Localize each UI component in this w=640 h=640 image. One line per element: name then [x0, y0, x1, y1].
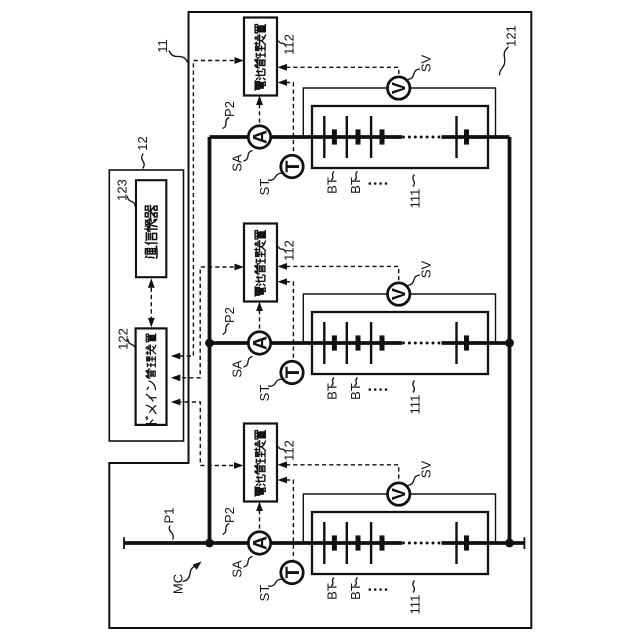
svg-text:SV: SV	[419, 261, 434, 279]
svg-text:11: 11	[155, 39, 170, 53]
svg-text:A: A	[249, 536, 271, 550]
svg-text:V: V	[389, 488, 409, 500]
svg-text:A: A	[249, 130, 271, 144]
svg-text:ST: ST	[257, 585, 272, 602]
svg-text:P2: P2	[222, 507, 237, 523]
svg-text:12: 12	[135, 136, 150, 150]
svg-text:121: 121	[504, 25, 519, 47]
svg-text:P2: P2	[222, 307, 237, 323]
svg-text:P2: P2	[222, 101, 237, 117]
svg-text:T: T	[282, 160, 304, 172]
svg-text:MC: MC	[171, 574, 186, 594]
svg-text:T: T	[282, 566, 304, 578]
svg-text:111: 111	[407, 189, 422, 209]
svg-text:ST: ST	[257, 179, 272, 196]
svg-text:122: 122	[116, 328, 131, 350]
svg-text:SV: SV	[419, 55, 434, 73]
svg-text:SA: SA	[230, 560, 245, 578]
svg-text:P1: P1	[161, 508, 176, 524]
svg-text:112: 112	[282, 440, 297, 461]
svg-text:111: 111	[407, 595, 422, 615]
svg-text:SV: SV	[419, 461, 434, 479]
svg-text:112: 112	[282, 34, 297, 55]
svg-text:112: 112	[282, 240, 297, 261]
svg-text:ST: ST	[257, 385, 272, 402]
svg-text:V: V	[389, 288, 409, 300]
svg-text:T: T	[282, 366, 304, 378]
svg-text:A: A	[249, 336, 271, 350]
svg-text:V: V	[389, 82, 409, 94]
svg-text:111: 111	[407, 395, 422, 415]
svg-text:SA: SA	[230, 154, 245, 172]
svg-text:SA: SA	[230, 360, 245, 378]
